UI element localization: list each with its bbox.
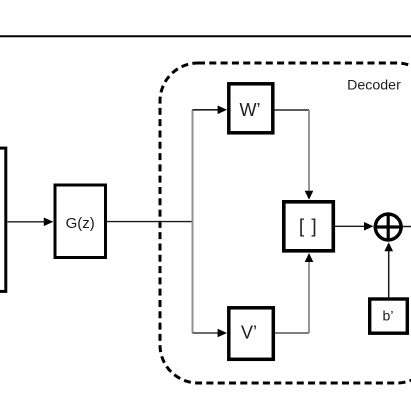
wire concat to adder [335, 225, 365, 227]
wire elbow up into concat [308, 260, 310, 333]
decoder boundary (dashed rounded rectangle) [160, 63, 411, 383]
svg-text:Decoder: Decoder [347, 78, 401, 94]
input block (clipped at left edge) [0, 148, 6, 291]
adder (circle with plus) [375, 214, 401, 240]
output wire from adder [403, 226, 411, 228]
wire b' up to adder [388, 250, 390, 298]
svg-text:[ ]: [ ] [299, 216, 318, 237]
block b' [370, 299, 408, 333]
wire input to G(z) [7, 221, 44, 223]
svg-text:b’: b’ [383, 308, 394, 324]
block concat [ ] [284, 202, 334, 251]
junction vertical wire [192, 110, 194, 333]
wire junction to W' [193, 109, 219, 111]
svg-text:G(z): G(z) [66, 215, 95, 232]
svg-text:V’: V’ [241, 322, 257, 342]
wire G(z) to junction [107, 221, 193, 223]
top separator line [0, 35, 411, 37]
wire junction to V' [193, 332, 219, 334]
wire V' to elbow [275, 332, 309, 334]
block G(z) [55, 185, 106, 258]
block W' [229, 84, 273, 133]
block V' [229, 308, 273, 360]
wire elbow down into concat [308, 110, 310, 192]
svg-text:W’: W’ [240, 100, 261, 120]
wire W' to elbow [275, 109, 310, 111]
